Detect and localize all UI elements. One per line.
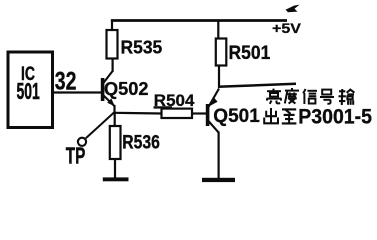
wire R536 bottom lead <box>114 159 116 178</box>
transistor Q502 (NPN) <box>103 71 115 106</box>
svg-text:TP: TP <box>66 143 86 169</box>
svg-text:32: 32 <box>55 67 77 95</box>
ground (Q501) <box>202 178 235 182</box>
wire node to R504 <box>114 112 162 115</box>
wire +5V top rail <box>111 19 287 22</box>
wire node to TP terminal <box>86 113 114 139</box>
wire Q502 emitter to node <box>113 105 115 114</box>
wire Q502 collector to R535 <box>111 59 113 73</box>
svg-text:R501: R501 <box>229 41 271 63</box>
net label line1: 号 <box>320 90 334 104</box>
net label line1: 度 <box>285 88 299 104</box>
svg-text:Q502: Q502 <box>104 79 149 99</box>
svg-text:501: 501 <box>17 78 40 103</box>
svg-text:R535: R535 <box>121 37 163 58</box>
svg-text:Q501: Q501 <box>213 106 260 127</box>
wire R501 top lead <box>217 21 219 39</box>
wire Q501 collector to ground <box>218 132 220 179</box>
wire IC pin 32 to Q502 base <box>53 91 102 93</box>
IC U501 box <box>8 52 53 128</box>
net label line2: 至 <box>282 109 297 123</box>
wire R504 to Q501 base <box>192 112 206 114</box>
net label line1: 亮 <box>267 89 282 104</box>
resistor R501 <box>216 39 227 66</box>
resistor R536 <box>110 126 121 159</box>
net label line2: 出 <box>264 108 278 123</box>
TP terminal circle <box>78 138 86 146</box>
ground (R536) <box>103 177 129 181</box>
svg-text:P3001-5: P3001-5 <box>298 106 372 129</box>
resistor R504 <box>162 109 193 118</box>
+5V arrow mark <box>286 5 300 13</box>
resistor R535 <box>107 30 118 59</box>
wire node to R536 <box>114 112 116 126</box>
R504 underline mark <box>154 106 173 108</box>
net label line1: 信 <box>303 89 317 104</box>
wire brightness output line <box>218 84 296 87</box>
svg-text:+5V: +5V <box>272 21 301 37</box>
svg-text:R536: R536 <box>122 131 160 153</box>
transistor Q501 (PNP) <box>208 89 219 133</box>
wire R535 top lead <box>111 20 113 31</box>
net label line1: 输 <box>339 89 355 105</box>
wire R501 bottom lead to node <box>218 66 220 89</box>
